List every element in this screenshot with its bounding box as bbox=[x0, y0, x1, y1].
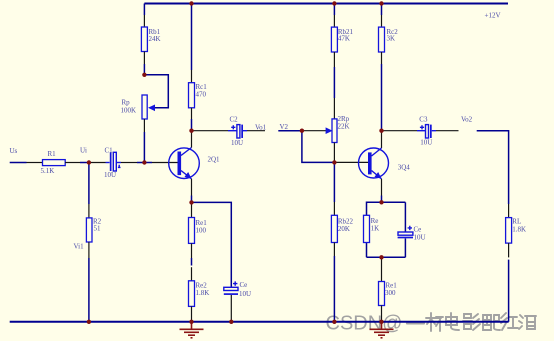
svg-text:Rp: Rp bbox=[122, 99, 131, 107]
svg-text:47K: 47K bbox=[338, 35, 350, 43]
svg-text:10U: 10U bbox=[239, 290, 251, 298]
svg-text:Vo2: Vo2 bbox=[461, 116, 473, 124]
svg-text:C1: C1 bbox=[105, 147, 114, 155]
svg-text:100: 100 bbox=[196, 227, 207, 235]
svg-text:V2: V2 bbox=[280, 123, 289, 131]
svg-text:Vo1: Vo1 bbox=[255, 124, 267, 132]
svg-text:1.8K: 1.8K bbox=[196, 289, 210, 297]
svg-text:10U: 10U bbox=[414, 234, 426, 242]
svg-text:24K: 24K bbox=[149, 35, 161, 43]
svg-text:Ui: Ui bbox=[80, 147, 87, 155]
svg-text:CSDN@: CSDN@ bbox=[326, 313, 403, 335]
svg-text:470: 470 bbox=[196, 91, 207, 99]
svg-text:Ce: Ce bbox=[240, 281, 248, 289]
svg-text:2Q1: 2Q1 bbox=[208, 156, 221, 164]
svg-text:+12V: +12V bbox=[485, 12, 501, 20]
svg-text:Vi1: Vi1 bbox=[74, 243, 85, 251]
svg-text:100K: 100K bbox=[121, 107, 137, 115]
svg-text:Ce: Ce bbox=[414, 226, 422, 234]
svg-text:RL: RL bbox=[512, 218, 521, 226]
svg-text:51: 51 bbox=[94, 225, 102, 233]
svg-text:1.8K: 1.8K bbox=[512, 226, 526, 234]
svg-text:10U: 10U bbox=[231, 139, 243, 147]
svg-text:10U: 10U bbox=[104, 171, 116, 179]
svg-text:Us: Us bbox=[10, 147, 18, 155]
svg-text:20K: 20K bbox=[338, 225, 350, 233]
svg-text:5.1K: 5.1K bbox=[41, 167, 55, 175]
svg-text:3K: 3K bbox=[387, 35, 396, 43]
svg-text:300: 300 bbox=[385, 289, 396, 297]
svg-text:C2: C2 bbox=[230, 116, 239, 124]
svg-text:10U: 10U bbox=[420, 139, 432, 147]
svg-text:R1: R1 bbox=[48, 150, 57, 158]
svg-text:1K: 1K bbox=[371, 225, 380, 233]
svg-text:22K: 22K bbox=[338, 123, 350, 131]
svg-text:C3: C3 bbox=[419, 116, 428, 124]
svg-text:3Q4: 3Q4 bbox=[398, 164, 411, 172]
